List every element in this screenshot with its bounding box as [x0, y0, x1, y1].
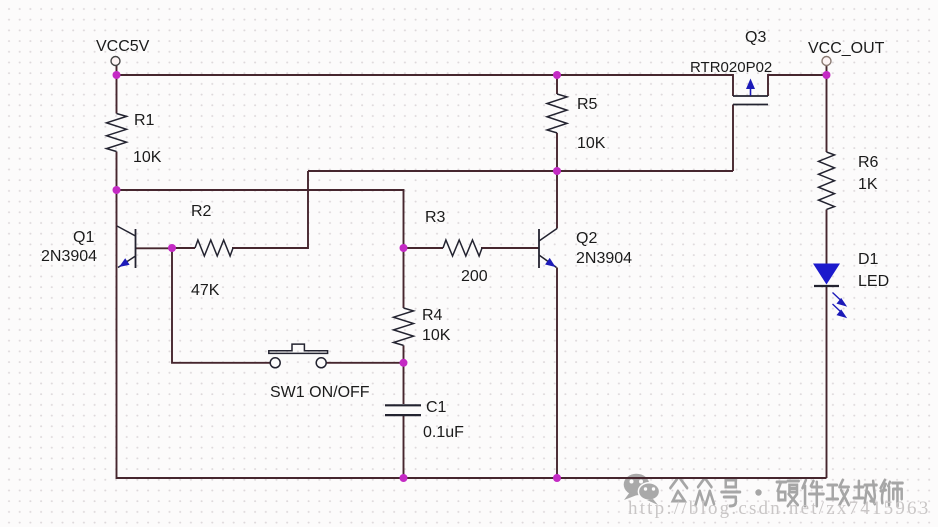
svg-text:VCC5V: VCC5V	[96, 38, 150, 55]
svg-text:RTR020P02: RTR020P02	[690, 59, 772, 76]
svg-text:D1: D1	[858, 251, 879, 268]
svg-text:R1: R1	[134, 112, 155, 129]
svg-text:C1: C1	[426, 399, 447, 416]
svg-text:R6: R6	[858, 154, 879, 171]
svg-text:R5: R5	[577, 96, 598, 113]
svg-text:R2: R2	[191, 203, 212, 220]
svg-text:10K: 10K	[133, 149, 162, 166]
svg-text:VCC_OUT: VCC_OUT	[808, 40, 885, 57]
svg-text:10K: 10K	[422, 327, 451, 344]
svg-text:10K: 10K	[577, 135, 606, 152]
svg-text:0.1uF: 0.1uF	[423, 424, 464, 441]
svg-text:R4: R4	[422, 307, 443, 324]
svg-text:47K: 47K	[191, 282, 220, 299]
svg-text:200: 200	[461, 268, 488, 285]
svg-text:SW1 ON/OFF: SW1 ON/OFF	[270, 384, 370, 401]
svg-text:R3: R3	[425, 209, 446, 226]
svg-text:2N3904: 2N3904	[41, 248, 97, 265]
svg-text:Q3: Q3	[745, 29, 766, 46]
svg-text:2N3904: 2N3904	[576, 250, 632, 267]
svg-text:Q1: Q1	[73, 229, 94, 246]
svg-text:1K: 1K	[858, 176, 878, 193]
svg-text:http://blog.csdn.net/zx7415963: http://blog.csdn.net/zx7415963	[628, 498, 930, 519]
svg-text:Q2: Q2	[576, 230, 597, 247]
svg-text:LED: LED	[858, 273, 889, 290]
